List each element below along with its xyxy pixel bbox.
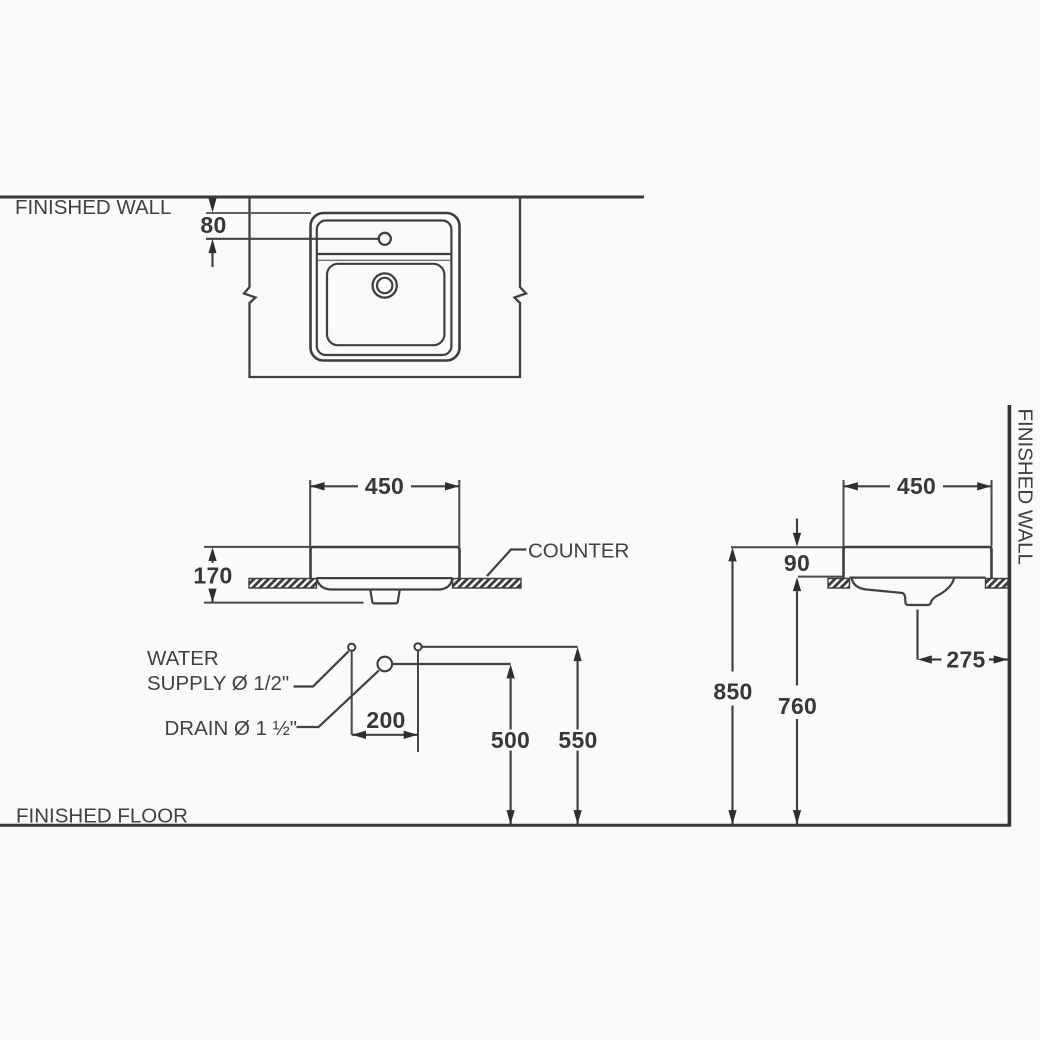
svg-text:COUNTER: COUNTER	[528, 540, 629, 563]
svg-text:500: 500	[491, 727, 530, 753]
svg-text:FINISHED WALL: FINISHED WALL	[15, 196, 171, 219]
svg-text:80: 80	[200, 212, 226, 238]
svg-text:170: 170	[193, 563, 232, 589]
svg-text:850: 850	[713, 679, 752, 705]
svg-text:275: 275	[946, 647, 985, 673]
svg-text:200: 200	[366, 707, 405, 733]
svg-text:FINISHED WALL: FINISHED WALL	[1014, 409, 1037, 565]
svg-text:550: 550	[558, 727, 597, 753]
svg-text:WATER: WATER	[147, 647, 219, 670]
svg-text:SUPPLY Ø 1/2": SUPPLY Ø 1/2"	[147, 672, 289, 695]
svg-text:450: 450	[897, 473, 936, 499]
svg-text:450: 450	[365, 473, 404, 499]
svg-text:90: 90	[784, 550, 810, 576]
svg-text:FINISHED FLOOR: FINISHED FLOOR	[16, 805, 188, 828]
svg-text:760: 760	[778, 693, 817, 719]
svg-text:DRAIN Ø 1 ½": DRAIN Ø 1 ½"	[165, 717, 298, 740]
